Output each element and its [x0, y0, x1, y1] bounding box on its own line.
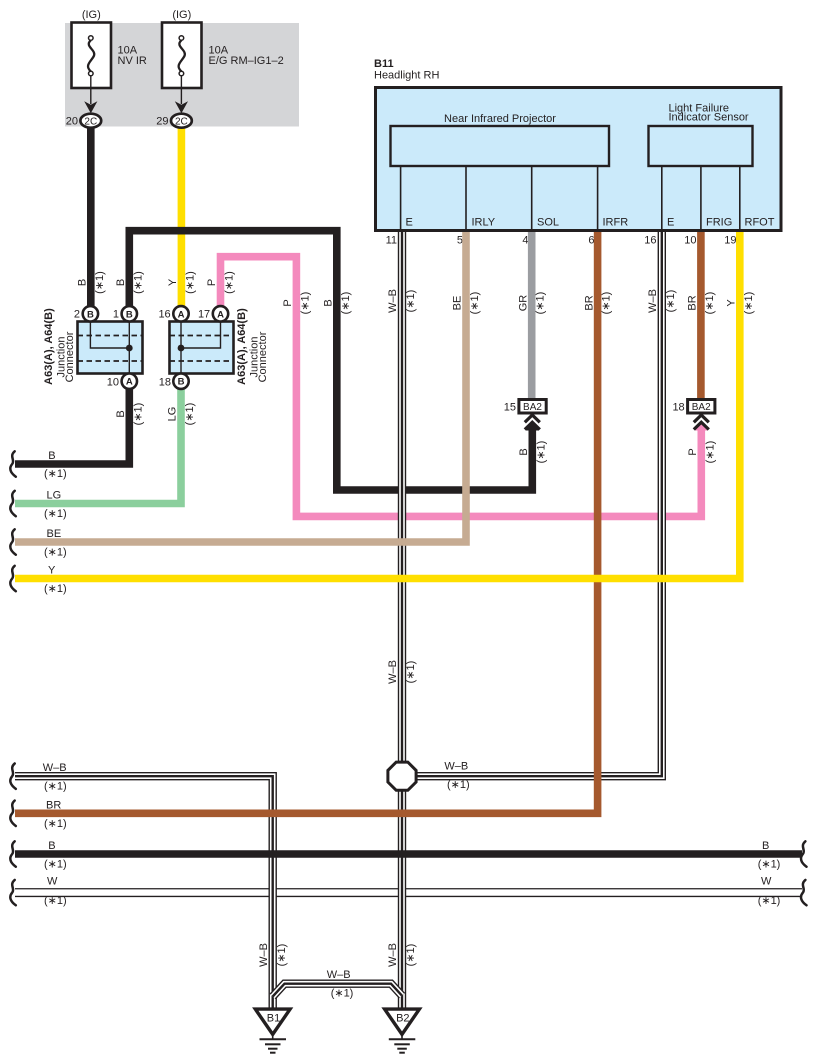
rotated label B (fuse wire)	[77, 271, 106, 294]
svg-text:B: B	[87, 309, 94, 320]
svg-text:11: 11	[386, 235, 397, 247]
svg-text:P: P	[282, 299, 294, 306]
svg-text:(∗1): (∗1)	[447, 779, 470, 791]
wire B from junction pin 1 to shield connector 15 BA2	[129, 231, 532, 490]
wire B bus (bottom)	[15, 850, 802, 858]
ground B2	[385, 1009, 420, 1053]
svg-text:(∗1): (∗1)	[665, 290, 677, 313]
svg-text:(∗1): (∗1)	[299, 292, 311, 315]
svg-text:(IG): (IG)	[172, 9, 191, 21]
label B bus right	[758, 840, 781, 871]
label W-B at ground jumper	[327, 969, 354, 1000]
fuse F1 arrow	[84, 101, 97, 113]
svg-text:Near Infrared Projector: Near Infrared Projector	[444, 113, 556, 125]
label B bus upper	[44, 450, 67, 480]
pin name labels inside B11	[406, 217, 775, 229]
svg-text:W: W	[761, 875, 772, 887]
label W-B at splice right	[444, 761, 469, 792]
svg-text:B2: B2	[396, 1013, 409, 1025]
svg-text:W–B: W–B	[387, 660, 399, 684]
rotated label LG (pin 18 drop)	[167, 403, 196, 426]
svg-text:P: P	[687, 448, 699, 455]
junction pin 16 (A)	[158, 306, 188, 321]
rotated label P (pin 17 wire)	[206, 271, 235, 294]
shield connector 18 BA2	[672, 400, 714, 431]
pin numbers below B11	[386, 235, 737, 247]
svg-text:(∗1): (∗1)	[44, 547, 67, 559]
svg-text:RFOT: RFOT	[745, 217, 775, 229]
internal pin lead FRIG (pin 10)	[700, 166, 702, 230]
svg-text:(∗1): (∗1)	[44, 818, 67, 830]
svg-text:(∗1): (∗1)	[132, 403, 144, 426]
svg-text:E/G RM–IG1–2: E/G RM–IG1–2	[209, 55, 284, 67]
svg-text:2C: 2C	[175, 116, 188, 127]
svg-text:18: 18	[672, 402, 684, 414]
svg-text:20: 20	[66, 116, 78, 128]
svg-text:SOL: SOL	[537, 217, 559, 229]
svg-text:BE: BE	[47, 528, 62, 540]
svg-text:(∗1): (∗1)	[535, 441, 547, 464]
svg-text:(∗1): (∗1)	[704, 441, 716, 464]
svg-text:B: B	[115, 410, 127, 417]
svg-text:Connector: Connector	[64, 331, 76, 382]
rotated label GR (pin 4 wire)	[517, 292, 546, 315]
svg-text:W–B: W–B	[327, 969, 351, 981]
internal pin lead RFOT (pin 19)	[739, 166, 741, 230]
svg-text:BR: BR	[583, 295, 595, 310]
svg-text:(∗1): (∗1)	[132, 271, 144, 294]
svg-text:B1: B1	[267, 1013, 280, 1025]
rotated label W-B (pin 11 wire middle)	[387, 660, 417, 684]
rotated label B (pin 10 drop)	[115, 403, 144, 426]
svg-text:A63(A), A64(B): A63(A), A64(B)	[43, 308, 55, 385]
svg-text:B: B	[762, 840, 769, 852]
svg-text:4: 4	[522, 235, 528, 247]
junction connector right rotated name	[236, 308, 269, 385]
svg-text:Y: Y	[726, 299, 738, 307]
rotated label Y (pin 19 wire)	[726, 292, 755, 315]
svg-text:BE: BE	[452, 296, 464, 311]
internal pin lead SOL (pin 4)	[531, 166, 533, 230]
svg-text:(∗1): (∗1)	[340, 292, 352, 315]
label Y bus	[44, 565, 67, 596]
svg-text:(∗1): (∗1)	[758, 859, 781, 871]
rotated label B (black riser)	[323, 292, 352, 315]
svg-text:B: B	[126, 309, 133, 320]
svg-text:(∗1): (∗1)	[94, 271, 106, 294]
fuse F1 10A NV IR	[72, 9, 147, 88]
svg-text:BR: BR	[46, 799, 61, 811]
svg-text:(∗1): (∗1)	[601, 292, 613, 315]
svg-text:(∗1): (∗1)	[44, 468, 67, 480]
svg-text:E: E	[406, 217, 413, 229]
wire break symbols, left edge	[10, 451, 15, 905]
wire W-B bus from left edge to ground B1	[15, 776, 273, 1010]
junction pin 18 (B)	[159, 374, 189, 389]
label B bus lower left	[44, 840, 67, 871]
junction connector left rotated name	[43, 308, 76, 385]
rotated label B (pin 1 wire)	[115, 271, 144, 294]
svg-text:NV IR: NV IR	[118, 55, 147, 67]
svg-text:(∗1): (∗1)	[469, 292, 481, 315]
svg-text:(∗1): (∗1)	[405, 290, 417, 313]
svg-text:W: W	[47, 875, 58, 887]
fuse F2 10A E/G RM-IG1-2	[162, 9, 284, 88]
internal pin lead IRFR (pin 6)	[597, 166, 599, 230]
wire LG from junction pin 18 to left edge	[15, 388, 181, 504]
junction pin 17 (A)	[198, 306, 228, 321]
svg-text:A: A	[126, 377, 133, 388]
svg-text:W–B: W–B	[258, 943, 270, 967]
svg-text:W–B: W–B	[387, 943, 399, 967]
svg-text:2: 2	[74, 309, 80, 321]
svg-text:W–B: W–B	[444, 761, 468, 773]
svg-text:(∗1): (∗1)	[184, 271, 196, 294]
svg-text:BA2: BA2	[523, 402, 542, 413]
svg-text:5: 5	[457, 235, 463, 247]
junction connector A63(A),A64(B) right box	[170, 322, 234, 374]
rotated label BR (pin 6 wire)	[583, 292, 612, 315]
svg-text:A63(A), A64(B): A63(A), A64(B)	[236, 308, 248, 385]
svg-text:LG: LG	[47, 490, 62, 502]
shield connector 15 BA2	[504, 400, 546, 431]
wire W-B jumper between grounds B1 and B2	[273, 984, 402, 997]
label BR bus	[44, 799, 67, 830]
svg-text:B: B	[115, 279, 127, 286]
rotated label W-B (pin 11 wire top)	[387, 289, 417, 313]
wire W-B from pin 11 E through splice to ground B2	[398, 232, 406, 1010]
rotated label BR (pin 10 wire)	[687, 292, 716, 315]
svg-text:E: E	[667, 217, 674, 229]
svg-text:B: B	[48, 840, 55, 852]
svg-text:(∗1): (∗1)	[535, 292, 547, 315]
fuse F2 lead wire	[180, 76, 182, 104]
wire W bus (bottom, double line)	[15, 888, 802, 897]
svg-text:P: P	[206, 279, 218, 286]
internal pin lead E (pin 11)	[400, 166, 402, 230]
svg-text:LG: LG	[167, 407, 179, 422]
svg-text:Y: Y	[48, 565, 56, 577]
svg-text:B: B	[48, 450, 55, 462]
splice octagon	[388, 762, 416, 790]
internal block: Near Infrared Projector	[391, 113, 610, 166]
svg-text:(∗1): (∗1)	[405, 944, 417, 967]
wire W-B from pin 16 E to splice	[402, 232, 662, 776]
svg-text:(∗1): (∗1)	[44, 781, 67, 793]
connector 20 (2C)	[66, 114, 101, 128]
svg-text:10: 10	[107, 376, 119, 388]
svg-text:17: 17	[198, 309, 210, 321]
internal pin lead IRLY (pin 5)	[465, 166, 467, 230]
svg-text:Headlight RH: Headlight RH	[374, 70, 439, 82]
rotated label W-B (pin 16 wire top)	[647, 289, 677, 313]
wire BR from pin 6 IRFR to left edge	[15, 232, 598, 813]
label W bus left	[44, 875, 67, 907]
svg-text:(∗1): (∗1)	[743, 292, 755, 315]
svg-text:A: A	[178, 309, 185, 320]
svg-text:(∗1): (∗1)	[331, 988, 354, 1000]
internal block: Light Failure Indicator Sensor	[649, 103, 753, 167]
svg-text:10: 10	[684, 235, 696, 247]
svg-text:W–B: W–B	[43, 762, 67, 774]
svg-text:(∗1): (∗1)	[704, 292, 716, 315]
wire BE from pin 5 IRLY to left edge	[15, 232, 466, 542]
svg-text:19: 19	[724, 235, 736, 247]
svg-text:FRIG: FRIG	[706, 217, 732, 229]
wire Y from fuse 29-2C to junction pin 16	[178, 127, 186, 307]
internal pin lead E (pin 16)	[661, 166, 663, 230]
rotated label W-B (ground B2 drop)	[387, 943, 417, 967]
wire GR from pin 4 SOL to 15 BA2	[528, 232, 536, 400]
relay block panel (gray)	[65, 23, 299, 127]
svg-text:29: 29	[156, 116, 168, 128]
svg-text:Connector: Connector	[257, 331, 269, 382]
svg-text:BA2: BA2	[692, 402, 711, 413]
junction pin 10 (A)	[107, 374, 137, 389]
connector 29 (2C)	[156, 114, 192, 128]
label W-B bus left	[43, 762, 67, 793]
ground B1	[255, 1009, 290, 1053]
rotated label Y (fuse wire)	[167, 271, 196, 294]
wire B from fuse 20-2C to junction pin 2	[87, 127, 95, 307]
svg-text:W–B: W–B	[387, 289, 399, 313]
svg-text:16: 16	[644, 235, 656, 247]
svg-text:B: B	[518, 448, 530, 455]
svg-text:Indicator Sensor: Indicator Sensor	[669, 112, 749, 124]
svg-text:(∗1): (∗1)	[44, 583, 67, 595]
svg-text:IRFR: IRFR	[603, 217, 629, 229]
wire break symbols, right edge	[801, 841, 806, 905]
svg-text:Y: Y	[167, 278, 179, 286]
svg-text:(∗1): (∗1)	[276, 944, 288, 967]
fuse F1 lead wire	[90, 76, 92, 104]
junction connector A63(A),A64(B) left box	[78, 322, 143, 374]
svg-text:16: 16	[158, 309, 170, 321]
rotated label P (below 18 BA2)	[687, 441, 716, 464]
wire BR from pin 10 FRIG to 18 BA2	[697, 232, 705, 400]
junction pin 2 (B)	[74, 306, 98, 321]
svg-text:(∗1): (∗1)	[44, 895, 67, 907]
svg-text:2C: 2C	[84, 116, 97, 127]
svg-text:IRLY: IRLY	[472, 217, 496, 229]
component B11 Headlight RH	[374, 58, 781, 231]
svg-text:(∗1): (∗1)	[405, 661, 417, 684]
svg-text:(∗1): (∗1)	[224, 271, 236, 294]
svg-text:(∗1): (∗1)	[44, 508, 67, 520]
fuse F2 arrow	[175, 101, 188, 113]
svg-text:GR: GR	[517, 295, 529, 312]
svg-text:B: B	[77, 279, 89, 286]
label BE bus	[44, 528, 67, 559]
svg-text:(IG): (IG)	[82, 9, 101, 21]
svg-text:B11: B11	[374, 58, 394, 70]
svg-text:(∗1): (∗1)	[758, 895, 781, 907]
svg-text:B: B	[178, 377, 185, 388]
rotated label B (below 15 BA2)	[518, 441, 547, 464]
rotated label P (pink riser)	[282, 292, 311, 315]
wire B from junction pin 10 to left edge	[15, 388, 129, 464]
label LG bus	[44, 490, 67, 521]
rotated label W-B (ground B1 drop)	[258, 943, 288, 967]
junction pin 1 (B)	[113, 306, 137, 321]
svg-text:15: 15	[504, 402, 516, 414]
svg-text:W–B: W–B	[647, 289, 659, 313]
svg-text:B: B	[323, 299, 335, 306]
svg-text:(∗1): (∗1)	[44, 859, 67, 871]
wire P from junction pin 17 to shield connector 18 BA2	[221, 257, 702, 517]
svg-text:18: 18	[159, 376, 171, 388]
label W bus right	[758, 875, 781, 907]
svg-text:BR: BR	[687, 295, 699, 310]
rotated label BE (pin 5 wire)	[452, 292, 481, 315]
svg-text:1: 1	[113, 309, 119, 321]
wire Y from pin 19 RFOT to left edge	[15, 232, 740, 579]
svg-text:A: A	[217, 309, 224, 320]
svg-text:(∗1): (∗1)	[184, 403, 196, 426]
svg-text:6: 6	[588, 235, 594, 247]
